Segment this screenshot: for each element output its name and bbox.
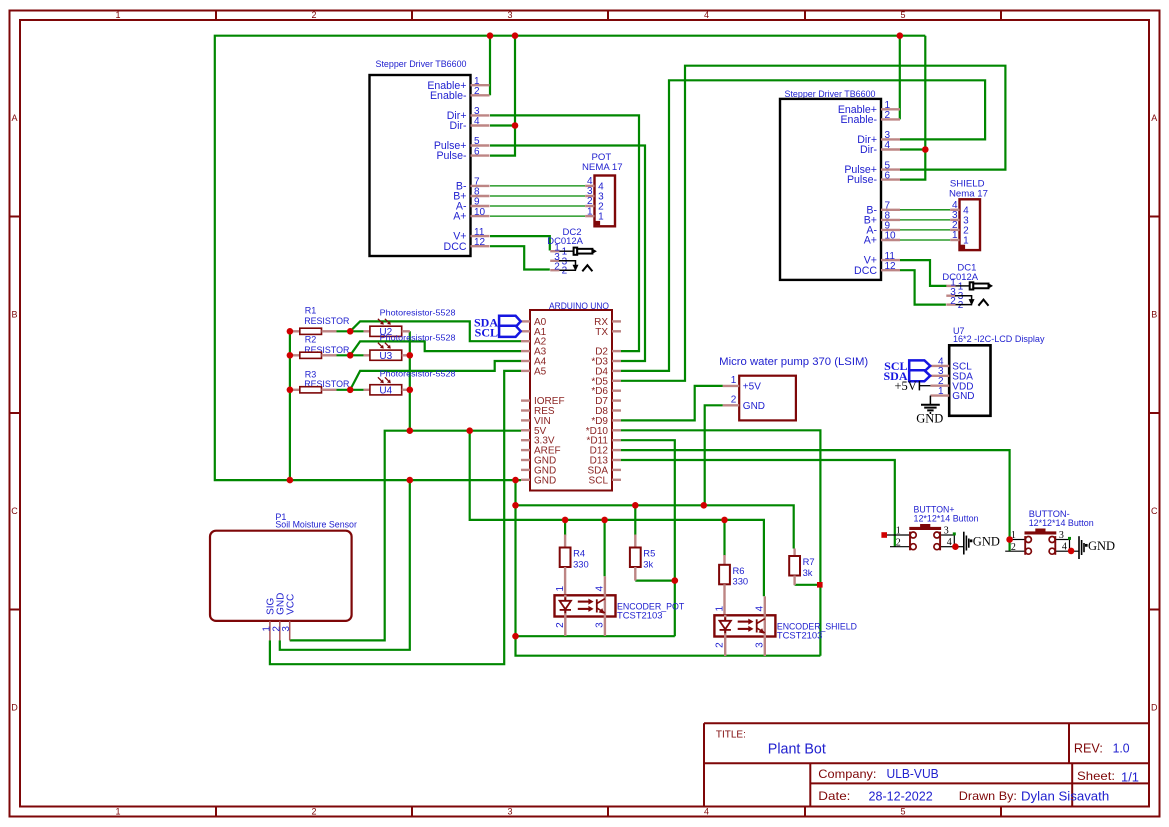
wire GND mid rail to R7 [516,505,794,548]
junction at 289.9,480.1 [287,477,294,484]
module Stepper Driver TB6600 [780,89,900,280]
svg-text:Company:: Company: [818,767,876,781]
junction at 635.3,505.3 [632,502,639,509]
svg-text:+5V: +5V [894,379,916,393]
junction at 724.5,519.9 [721,517,728,524]
wire arduino D12 to BUTTON- [621,450,1010,551]
svg-text:3: 3 [754,642,765,648]
svg-text:Enable-: Enable- [430,90,467,102]
svg-text:Drawn By:: Drawn By: [959,789,1017,803]
svg-text:R7: R7 [803,556,815,567]
svg-text:ULB-VUB: ULB-VUB [887,767,939,781]
junction at 955.4,546.7 [952,543,959,550]
wire 5V branch to optocoupler rail [470,431,764,597]
junction at 289.9,331.29999999999995 [287,328,294,335]
svg-text:2: 2 [715,642,726,648]
svg-text:4: 4 [704,807,709,817]
svg-text:2: 2 [1011,542,1016,553]
junction at 289.9,389.8 [287,387,294,394]
svg-text:GND: GND [916,411,943,425]
junction at 515,35.7 [512,32,519,39]
svg-text:TCST2103: TCST2103 [777,630,823,641]
wire-end junction at 819.8,584.8 [817,582,823,588]
resistor R1 [290,306,350,335]
svg-text:D: D [1151,703,1158,713]
svg-text:3k: 3k [643,558,653,569]
title block [704,723,1149,806]
junction at 703.8,505.3 [701,502,708,509]
svg-text:A5: A5 [534,366,547,377]
svg-text:Enable-: Enable- [840,114,877,126]
wire U4 to arduino A4 [350,361,521,390]
photoresistor U2 [364,308,456,338]
svg-text:4: 4 [947,537,952,548]
wire U2 to arduino A2 [350,321,521,341]
photoresistor U3 [364,332,456,362]
svg-text:1: 1 [896,526,901,537]
svg-text:Soil Moisture Sensor: Soil Moisture Sensor [275,520,357,530]
wire photoresistor right rail to 5V [409,331,411,430]
svg-text:4: 4 [704,10,709,20]
svg-text:Pulse-: Pulse- [436,150,466,162]
svg-text:28-12-2022: 28-12-2022 [869,789,933,804]
svg-text:2: 2 [958,300,964,311]
wire R7 bottom link [795,584,821,586]
svg-text:1: 1 [731,375,737,386]
wire stepper2 DCC to DC1 [900,270,946,304]
junction at 604.6,519.9 [601,517,608,524]
svg-text:4: 4 [474,116,480,127]
wire 5V rail to P1 VCC [290,431,521,641]
wire main top bus with left GND rail [215,36,926,480]
ground symbol at BUTTON- [1072,536,1115,559]
wire stepper1 Enable riser [489,36,491,96]
wire R5 bottom to D11 riser [635,579,675,581]
svg-text:330: 330 [573,558,589,569]
junction at 515.5,480.1 [512,477,519,484]
junction at 515,125.5 [512,122,519,129]
svg-text:GND: GND [973,534,1000,548]
svg-text:Plant Bot: Plant Bot [768,741,826,757]
junction at 515.5,636.2 [512,633,519,640]
svg-text:1: 1 [938,386,944,397]
wire stepper2 Pulse+ to arduino D5 [621,66,1005,381]
wire stepper1 motor links to POT connector [490,185,585,187]
svg-text:2: 2 [731,395,737,406]
svg-text:Stepper Driver TB6600: Stepper Driver TB6600 [376,59,467,70]
power flag +5V at U7 VDD [894,379,930,393]
ground symbol at U7 GND [916,396,943,426]
svg-text:2: 2 [311,10,316,20]
svg-text:TITLE:: TITLE: [716,729,746,740]
svg-text:GND: GND [534,475,556,486]
svg-text:B: B [1151,310,1157,320]
svg-text:SCL: SCL [475,326,498,340]
svg-text:NEMA 17: NEMA 17 [582,162,623,173]
svg-text:12: 12 [885,261,897,272]
svg-text:10: 10 [885,231,897,242]
wire stepper2 Enable riser [899,36,901,120]
junction at 490,35.7 [487,32,494,39]
resistor R7 [789,549,814,586]
svg-text:A+: A+ [453,211,466,223]
svg-text:U4: U4 [379,385,392,396]
resistor R6 [719,555,748,616]
optocoupler ENCODER_POT [555,576,685,636]
junction at 1009.6,539.5 [1006,536,1013,543]
svg-text:R1: R1 [305,306,317,316]
wire opto1 pin4 link [603,520,605,576]
wire pump GND riser [705,405,723,505]
svg-text:5: 5 [900,807,905,817]
wire photoresistor left rail [289,331,291,480]
net flag SCL at A1 [475,326,521,340]
wire arduino D11 to opto1 [621,440,675,636]
module Micro water pump 370 (LSIM) [719,356,868,421]
connector POT NEMA 17 [582,152,623,227]
junction at 565.1,519.9 [562,517,569,524]
svg-text:12: 12 [474,237,486,248]
svg-text:Nema 17: Nema 17 [949,189,988,200]
wire U3 to arduino A3 [350,341,521,355]
svg-text:Date:: Date: [818,789,850,803]
svg-text:Pulse-: Pulse- [847,174,877,186]
svg-text:SCL: SCL [589,475,609,486]
svg-text:A: A [1151,113,1157,123]
resistor R2 [290,335,350,359]
wire stepper2 Dir- to junction [900,148,925,150]
junction at 350.2,389.8 [347,387,354,394]
module P1 Soil Moisture Sensor [210,512,357,641]
svg-text:4: 4 [594,586,605,592]
junction at 674.8,580.6 [672,577,679,584]
svg-text:Dir-: Dir- [860,144,878,156]
wire stepper1 Dir+ to arduino D2 [490,115,639,351]
svg-text:3: 3 [281,626,292,632]
svg-text:B: B [11,310,17,320]
svg-text:Dir-: Dir- [449,120,467,132]
svg-text:12*12*14 Button: 12*12*14 Button [1029,518,1094,529]
wire R2/U3 row links [337,354,364,356]
svg-text:3: 3 [507,10,512,20]
wire R6 top link [723,520,725,556]
svg-text:5: 5 [900,10,905,20]
module Stepper Driver TB6600 [370,59,490,256]
resistor R3 [290,370,350,393]
svg-text:1.0: 1.0 [1113,741,1130,756]
junction at 350.2,355.3 [347,352,354,359]
wire stepper2 motor links to SHIELD connector [900,209,950,211]
wire arduino D9 to pump [621,386,723,421]
svg-text:VCC: VCC [285,594,296,615]
wire stepper1 V+ to DC2 [490,236,550,250]
svg-text:3k: 3k [803,567,813,578]
junction at 1071.1,550.9 [1068,548,1075,555]
junction at 409.8,480.1 [407,477,414,484]
svg-text:REV:: REV: [1074,741,1103,756]
wire arduino D10 to opto2 [621,430,820,655]
svg-text:1: 1 [952,230,958,241]
svg-text:4: 4 [885,140,891,151]
svg-text:330: 330 [733,576,749,587]
svg-text:4: 4 [754,606,765,612]
svg-text:DCC: DCC [444,241,467,253]
svg-text:1: 1 [115,10,120,20]
svg-text:2: 2 [950,296,956,307]
junction at 515.5,505.3 [512,502,519,509]
push button BUTTON+ [885,505,979,551]
svg-text:12*12*14 Button: 12*12*14 Button [914,514,979,525]
svg-text:2: 2 [562,266,568,277]
net flag SDA at U7 [883,369,930,383]
svg-text:3: 3 [944,526,949,537]
svg-text:1/1: 1/1 [1121,769,1139,784]
svg-text:6: 6 [885,170,891,181]
junction at 899.8,35.7 [897,32,904,39]
svg-text:RESISTOR: RESISTOR [304,316,350,326]
svg-text:Micro water pump 370 (LSIM): Micro water pump 370 (LSIM) [719,356,868,368]
svg-text:6: 6 [474,146,480,157]
svg-text:Photoresistor-5528: Photoresistor-5528 [380,308,456,318]
svg-text:GND: GND [743,401,765,412]
svg-text:2: 2 [311,807,316,817]
svg-text:Sheet:: Sheet: [1077,769,1115,783]
svg-text:2: 2 [896,537,901,548]
svg-text:1: 1 [587,206,593,217]
wire stepper1 Dir- to junction [490,124,515,126]
svg-text:R5: R5 [643,548,655,559]
wire-end junction at 884.2,535 [881,532,887,538]
svg-text:2: 2 [555,622,566,628]
svg-text:1: 1 [715,606,726,612]
wire top bus right end down to stepper2 Pulse- [900,36,925,180]
svg-text:R2: R2 [305,335,317,345]
junction at 409.8,389.8 [407,387,414,394]
junction at 409.8,355.3 [407,352,414,359]
wire stepper1 Pulse+ to arduino D3 [490,146,645,362]
svg-text:16*2 -I2C-LCD Display: 16*2 -I2C-LCD Display [953,334,1045,344]
wire R4 top link [564,520,566,536]
dc jack DC2 [547,227,596,277]
svg-text:2: 2 [554,262,560,273]
wire P1 GND riser [280,480,410,650]
svg-text:D: D [11,703,18,713]
svg-text:4: 4 [1062,542,1067,553]
junction at 469.7,430.7 [466,427,473,434]
net flag SCL at U7 [884,359,930,373]
photoresistor U4 [364,368,456,396]
svg-text:GND: GND [1088,539,1115,553]
junction at 350.2,331.29999999999995 [347,328,354,335]
junction at 925.3,149.5 [922,146,929,153]
wire stepper1 Dir riser [490,36,515,156]
svg-text:Photoresistor-5528: Photoresistor-5528 [380,368,456,378]
module ARDUINO UNO U? [521,301,621,490]
svg-text:3: 3 [507,807,512,817]
wire stepper1 DCC to DC2 [490,246,550,269]
resistor R4 [560,535,589,596]
module U7 16*2 I2C LCD Display [930,326,1045,416]
svg-text:2: 2 [474,86,480,97]
wire stepper2 Dir+ to arduino D4 [621,80,985,371]
wire R3/U4 row links [337,389,364,391]
dc jack DC1 [942,263,992,312]
wire arduino D13 to BUTTON+ [621,460,895,547]
junction at 289.9,355.3 [287,352,294,359]
svg-text:DCC: DCC [854,265,877,277]
svg-text:Photoresistor-5528: Photoresistor-5528 [380,332,456,342]
svg-text:A+: A+ [864,235,877,247]
svg-text:DC012A: DC012A [547,236,583,247]
svg-text:10: 10 [474,207,486,218]
svg-text:3: 3 [594,622,605,628]
svg-text:Dylan Sisavath: Dylan Sisavath [1021,789,1109,804]
wire GND branch down-right rail [516,480,821,656]
svg-text:TX: TX [595,327,608,338]
wire arduino A5 to P1 SIG [270,371,521,664]
svg-text:TCST2103: TCST2103 [617,610,663,621]
svg-text:U3: U3 [379,351,392,362]
svg-text:3: 3 [1059,530,1064,541]
svg-text:1: 1 [555,586,566,592]
connector SHIELD Nema 17 [949,179,988,251]
svg-text:R4: R4 [573,548,585,559]
svg-text:+5V: +5V [743,382,761,393]
ground symbol at BUTTON+ [957,532,1000,555]
wire R1/U2 row links [337,330,364,332]
svg-text:A: A [11,113,17,123]
junction at 409.8,430.7 [407,427,414,434]
optocoupler ENCODER_SHIELD [714,596,857,656]
push button BUTTON- [1005,509,1093,555]
svg-text:R6: R6 [733,565,745,576]
wire stepper2 V+ to DC1 [900,260,947,286]
svg-text:1: 1 [115,807,120,817]
wire opto1 emitter rail [516,635,675,637]
svg-text:C: C [1151,506,1158,516]
net flag SDA at A0 [474,316,521,330]
svg-text:C: C [11,506,18,516]
svg-text:GND: GND [952,391,974,402]
resistor R5 [630,535,655,581]
wire R5 top link [634,505,636,535]
svg-text:2: 2 [885,110,891,121]
